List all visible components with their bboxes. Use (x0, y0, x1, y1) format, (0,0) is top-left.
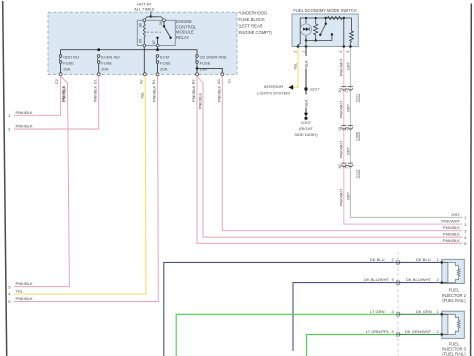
relay pin 86 (top left) (143, 19, 146, 22)
svg-text:FUSE: FUSE (200, 61, 211, 66)
switch pin 2 (297, 45, 300, 48)
resistor R1 vertical (314, 18, 318, 41)
svg-text:(RIGHT: (RIGHT (299, 126, 313, 131)
relay switch blade (164, 26, 171, 37)
svg-text:SIDE DASH): SIDE DASH) (294, 132, 318, 137)
svg-text:1: 1 (301, 51, 305, 53)
node bus junction at 87 (156, 48, 159, 51)
connector halves on LT GRN/PPL (397, 332, 400, 337)
svg-text:PNK/BLK: PNK/BLK (443, 232, 460, 237)
wire PNK/BLK from D1 to left edge row 2 (14, 76, 99, 129)
svg-text:(FUEL RAIL): (FUEL RAIL) (442, 298, 466, 303)
svg-text:1: 1 (437, 257, 440, 262)
svg-text:PNK/WHT: PNK/WHT (339, 58, 343, 76)
node resistor bottom junction (315, 39, 317, 41)
svg-text:LIGHTS SYSTEM: LIGHTS SYSTEM (257, 90, 290, 95)
wire GRY from switch pin 3 to right edge row 1 (350, 48, 462, 217)
svg-text:DK GRN: DK GRN (416, 309, 432, 314)
resistor R3 vertical right (350, 31, 354, 47)
wire YEL from A2 to left edge row 4 (14, 76, 146, 294)
switch blade stub (325, 18, 327, 24)
svg-text:PNK/BLK: PNK/BLK (16, 281, 33, 286)
fuel injector 3 internal solenoid (443, 314, 448, 334)
ground G207 symbol (304, 113, 308, 117)
svg-text:INTERIOR: INTERIOR (264, 84, 283, 89)
wire PNK/BLK from B1 to left edge row 5 (14, 76, 158, 302)
svg-text:ECM: ECM (160, 55, 170, 60)
svg-text:GRY: GRY (347, 61, 351, 70)
switch pin 4 (342, 45, 345, 48)
LED triangles (303, 28, 309, 31)
connector C1 on GRY (348, 87, 353, 91)
wire to pin 4 (343, 18, 345, 47)
svg-text:A2: A2 (139, 79, 143, 84)
resistor R2 horizontal on top rail (328, 17, 343, 20)
svg-text:FUEL ECONOMY MODE SWITCH: FUEL ECONOMY MODE SWITCH (293, 8, 356, 13)
svg-text:ALL TIMES: ALL TIMES (134, 6, 155, 11)
node top rail right junction (343, 17, 345, 19)
svg-text:4: 4 (8, 292, 11, 297)
wire DK BLU to fuel injector 2 pin 1 (164, 262, 441, 356)
svg-text:PNK/BLK: PNK/BLK (63, 85, 67, 102)
wire YEL from switch pin 2 to interior lights (292, 48, 298, 87)
svg-text:DK BLU/WHT: DK BLU/WHT (364, 277, 389, 282)
relay pin 87 (bottom middle) (156, 44, 159, 47)
svg-text:FUSE: FUSE (101, 61, 112, 66)
node blade pivot (325, 23, 327, 25)
svg-text:INJECTOR 2: INJECTOR 2 (442, 293, 467, 298)
underhood fuse block box (48, 12, 237, 74)
relay pin 30 (top right) (163, 19, 166, 22)
svg-text:GRY: GRY (347, 146, 351, 155)
svg-text:9: 9 (392, 277, 395, 282)
svg-text:20A: 20A (160, 67, 168, 72)
svg-text:DK BLU: DK BLU (370, 257, 385, 262)
svg-text:PNK/BLK: PNK/BLK (153, 85, 157, 102)
svg-text:19: 19 (344, 88, 348, 92)
relay K1 box (engine control module relay) (137, 20, 175, 45)
svg-text:FUSE BLOCK: FUSE BLOCK (239, 17, 265, 22)
wire color labels below fuse block (62, 85, 222, 109)
svg-text:C112: C112 (355, 170, 359, 179)
svg-text:DK BLU/WHT: DK BLU/WHT (406, 277, 431, 282)
svg-text:PNK/WHT: PNK/WHT (441, 219, 460, 224)
relay dashed actuator link (147, 31, 162, 33)
fuse block edge pin A3 (221, 73, 224, 76)
node 87 stub top (156, 37, 158, 39)
connector C1 on PNK/WHT (341, 87, 346, 91)
relay switch stub from pin 30 (163, 22, 165, 26)
relay pin 85 (bottom left) (143, 44, 146, 47)
splice S217 (304, 87, 307, 90)
svg-text:PNK/BLK: PNK/BLK (16, 110, 33, 115)
svg-text:ODD INJ: ODD INJ (63, 55, 79, 60)
connector C2 on PNK/WHT (341, 126, 346, 130)
node LED anode junction (305, 17, 307, 19)
node hot feed junction (150, 15, 152, 17)
wire relay 87 down to bus (157, 47, 159, 50)
switch pin 1 (305, 45, 308, 48)
fuel injector 2 label (442, 287, 467, 303)
svg-text:YEL: YEL (294, 63, 298, 70)
wire DK BLU/WHT to fuel injector 2 pin 2 (293, 283, 441, 351)
svg-text:20A: 20A (101, 67, 109, 72)
svg-text:PNK/BLK: PNK/BLK (443, 238, 460, 243)
svg-text:GRY: GRY (347, 103, 351, 112)
wire PNK/BLK branch from B2 to right edge row 4 (197, 76, 462, 237)
wire O2 fuse jog to pin A3 (197, 68, 222, 72)
wire relay 87 stub (157, 38, 159, 44)
svg-text:FUSE: FUSE (160, 61, 171, 66)
fuel injector 3 box (442, 311, 465, 338)
svg-text:PNK/WHT: PNK/WHT (339, 188, 343, 206)
fuse block edge pin D2 (59, 73, 62, 76)
svg-text:FUSE: FUSE (63, 61, 74, 66)
LED feed stub (305, 18, 307, 41)
fuel injector 2 internal solenoid (443, 262, 448, 282)
svg-text:ENGINE COMPT): ENGINE COMPT) (239, 30, 273, 35)
svg-text:DK BLU: DK BLU (416, 257, 431, 262)
relay label (176, 19, 197, 40)
wire LED bottom rail (306, 35, 332, 47)
connector C3 on PNK/WHT (341, 163, 346, 167)
svg-text:2: 2 (293, 51, 297, 53)
svg-text:X1: X1 (227, 79, 231, 84)
svg-text:LT GRN: LT GRN (370, 309, 385, 314)
node LED cathode junction (305, 39, 307, 41)
fuse block edge pin D1 (97, 73, 100, 76)
underhood fuse block label (239, 11, 273, 35)
svg-text:O2 SNSR PRE: O2 SNSR PRE (200, 55, 228, 60)
switch internal top rail (298, 18, 352, 47)
svg-text:PNK/BLK: PNK/BLK (16, 124, 33, 129)
page border right (470, 4, 473, 356)
svg-text:YEL: YEL (16, 289, 24, 294)
wire DK GRN right segment (398, 313, 441, 315)
node resistor top junction (315, 17, 317, 19)
svg-text:D1: D1 (93, 79, 97, 84)
svg-text:PNK/BLK: PNK/BLK (192, 85, 196, 102)
wire PNK/BLK from B2 to right edge row 5 (197, 76, 462, 243)
relay coil (143, 22, 145, 44)
wire BLK from switch pin 1 to ground (305, 48, 307, 116)
svg-text:B2: B2 (192, 79, 196, 84)
fuse F2 EVEN INJ 20A (97, 55, 119, 73)
fuel injector 3 label (442, 341, 467, 356)
svg-text:FUEL: FUEL (449, 287, 460, 292)
fuel injector 2 box (442, 259, 465, 283)
pin labels at fuse block edge (55, 79, 221, 84)
svg-text:BLK: BLK (305, 99, 309, 107)
svg-text:S217: S217 (310, 87, 320, 92)
svg-text:30: 30 (159, 21, 163, 25)
svg-text:PNK/BLK: PNK/BLK (94, 85, 98, 102)
svg-text:9: 9 (392, 329, 395, 334)
svg-text:20: 20 (338, 88, 342, 92)
wire PNK/BLK from A3 to right edge row 3 (222, 76, 462, 231)
fuse F3 ECM 20A (156, 55, 171, 73)
svg-text:FUEL: FUEL (449, 341, 460, 346)
fuse block edge pin B1 (156, 73, 159, 76)
wire PNK/BLK from D2 to left edge row 1 (14, 76, 61, 115)
svg-text:86: 86 (139, 23, 143, 27)
LED D1 circle (300, 24, 311, 35)
connector halves on LT GRN (397, 312, 400, 317)
svg-text:4: 4 (339, 51, 343, 53)
switch pin number labels (293, 51, 349, 53)
svg-text:10: 10 (338, 127, 342, 131)
svg-text:2: 2 (392, 257, 395, 262)
fuel injector 3 pin 2 (440, 333, 443, 336)
node switch contact (331, 33, 333, 35)
wire fuse bus (61, 50, 197, 55)
svg-text:C211: C211 (355, 94, 359, 103)
connector halves on DK BLU/WHT (397, 280, 400, 285)
svg-text:5: 5 (464, 241, 467, 246)
switch pin 3 (349, 45, 352, 48)
node blade tip (169, 37, 171, 39)
arrow to interior lights system (288, 85, 293, 90)
svg-text:20A: 20A (63, 67, 70, 72)
svg-text:85: 85 (139, 39, 143, 43)
svg-text:5: 5 (8, 299, 11, 304)
connector boundary dashed line (397, 252, 399, 356)
svg-text:1: 1 (437, 309, 440, 314)
fuel injector 2 pin 1 (440, 261, 443, 264)
node blade top (325, 17, 327, 19)
wire hot feed into relay (150, 11, 152, 16)
svg-text:D2: D2 (55, 79, 59, 84)
ground G207 label (294, 120, 318, 137)
fuse block edge pin A2 (143, 73, 146, 76)
svg-text:3: 3 (346, 51, 350, 53)
fuel injector 2 pin 2 (440, 281, 443, 284)
node switch pivot (163, 25, 165, 27)
svg-text:1: 1 (8, 113, 11, 118)
svg-text:2: 2 (437, 329, 440, 334)
svg-text:PNK/BLK: PNK/BLK (198, 92, 202, 109)
svg-text:30: 30 (338, 164, 342, 168)
fuel economy mode switch box (292, 14, 358, 47)
svg-text:G207: G207 (301, 120, 312, 125)
svg-text:DK GRN/WHT: DK GRN/WHT (405, 329, 432, 334)
svg-text:B1: B1 (152, 79, 156, 84)
wire LT GRN to fuel injector 3 pin 1 (176, 314, 398, 356)
svg-text:*UNDERHOOD: *UNDERHOOD (239, 11, 268, 16)
node O2 fuse output split (196, 67, 199, 70)
wire relay 85 down to fuse block pin A2 (143, 47, 145, 73)
connector halves on DK BLU (397, 260, 400, 265)
svg-text:A3: A3 (217, 79, 221, 84)
connector C2 on GRY (348, 126, 353, 130)
svg-text:87: 87 (152, 40, 156, 44)
svg-text:11: 11 (344, 127, 348, 131)
svg-text:29: 29 (344, 164, 348, 168)
svg-text:3: 3 (464, 229, 467, 234)
svg-text:4: 4 (464, 235, 467, 240)
fuel injector 3 pin 1 (440, 313, 443, 316)
svg-text:1: 1 (464, 215, 467, 220)
svg-text:PNK/BLK: PNK/BLK (217, 85, 221, 102)
svg-text:YEL: YEL (140, 91, 144, 99)
svg-text:EVEN INJ: EVEN INJ (101, 55, 119, 60)
svg-text:(LEFT REAR: (LEFT REAR (239, 24, 263, 29)
svg-text:BLK: BLK (305, 60, 309, 68)
svg-text:3: 3 (392, 309, 395, 314)
svg-text:LT GRN/PPL: LT GRN/PPL (366, 329, 390, 334)
svg-text:2: 2 (464, 222, 467, 227)
fuse block edge pin B2 (196, 73, 199, 76)
svg-text:C305: C305 (355, 132, 359, 141)
node blade tip (319, 34, 321, 36)
svg-text:PNK/BLK: PNK/BLK (443, 225, 460, 230)
wire LT GRN/PPL to fuel injector 3 pin 2 (307, 334, 399, 356)
svg-text:3: 3 (8, 284, 11, 289)
node bus tap even inj (97, 48, 100, 51)
wire DK GRN/WHT right segment (398, 333, 441, 335)
svg-text:GRY: GRY (347, 191, 351, 200)
label interior lights system (257, 84, 290, 95)
svg-text:PNK/WHT: PNK/WHT (339, 140, 343, 158)
switch blade S1 (320, 24, 326, 35)
svg-text:PNK/BLK: PNK/BLK (16, 296, 33, 301)
wire Y-split to relay pins 86 and 30 (144, 17, 164, 21)
svg-text:GRY: GRY (451, 212, 460, 217)
fuse F4 O2 SNSR PRE 15A (196, 55, 227, 73)
label HOT AT ALL TIMES (134, 2, 155, 12)
svg-text:(FUEL RAIL): (FUEL RAIL) (442, 352, 466, 356)
page border left (3, 1, 7, 356)
fuse F1 ODD INJ 20A (59, 55, 79, 73)
svg-text:2: 2 (8, 127, 11, 132)
svg-text:RELAY: RELAY (176, 35, 190, 40)
wire PNK/WHT from switch pin 4 to right edge row 2 (344, 48, 462, 224)
wire PNK/BLK branch from D2 down to row 3 (14, 76, 69, 287)
svg-text:2: 2 (437, 277, 440, 282)
svg-text:PNK/WHT: PNK/WHT (339, 100, 343, 118)
svg-text:15A: 15A (200, 67, 208, 72)
connector C3 on GRY (348, 163, 353, 167)
